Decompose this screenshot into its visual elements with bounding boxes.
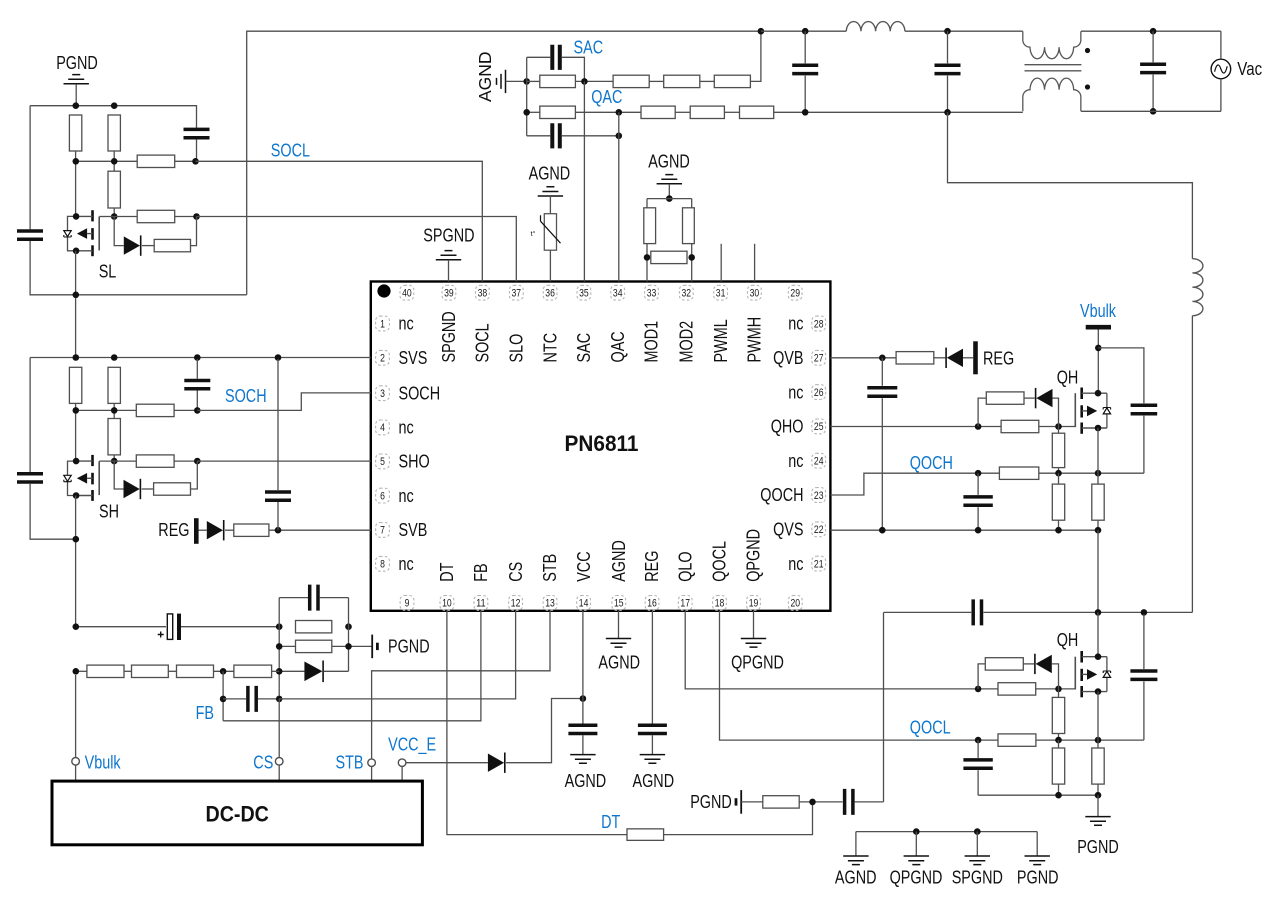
resistor R34 (QH gate) xyxy=(1001,420,1039,432)
wire C15 bottom stem xyxy=(947,76,949,113)
node junction CS column / CS line xyxy=(276,696,283,703)
wire VCC_E terminal to DC-DC xyxy=(401,767,403,782)
svg-text:39: 39 xyxy=(444,288,454,300)
svg-text:36: 36 xyxy=(545,288,555,300)
wire gate node to R36 xyxy=(1058,427,1060,434)
svg-text:QHO: QHO xyxy=(771,417,804,437)
svg-text:nc: nc xyxy=(399,554,414,574)
node junction AC line / SAC chain xyxy=(758,28,765,35)
resistor R39 (QVS sense upper) xyxy=(1092,484,1104,520)
ground AGND (VCC cap) xyxy=(570,755,595,764)
svg-text:11: 11 xyxy=(476,598,486,610)
capacitor C21 (boot lower) xyxy=(1130,671,1157,679)
ground PGND (lower right) xyxy=(1085,817,1110,826)
wire SVS rail to pin 2 xyxy=(30,357,371,359)
node junction row / QPGND xyxy=(913,828,920,835)
svg-text:PGND: PGND xyxy=(56,53,98,73)
svg-text:Vbulk: Vbulk xyxy=(1080,301,1117,321)
node junction QOCL / R42-R44 xyxy=(1055,737,1062,744)
svg-text:VCC: VCC xyxy=(574,551,594,581)
resistor R21 (QPGND filter) xyxy=(763,796,799,808)
wire bank left column xyxy=(278,598,280,699)
wire QPGND column xyxy=(883,612,885,802)
svg-text:SOCL: SOCL xyxy=(473,323,493,362)
pin number 29 xyxy=(788,285,802,300)
node junction QOCL / QH source lower xyxy=(1095,737,1102,744)
polarity dot T1 bottom xyxy=(1085,84,1090,89)
svg-text:DC-DC: DC-DC xyxy=(206,802,269,827)
wire R28-R29 xyxy=(724,111,739,113)
pin number 40 xyxy=(400,285,414,300)
pin number 12 xyxy=(509,596,523,611)
wire SL return loop to AC top line xyxy=(247,31,761,295)
wire QOCL net from pin 18 xyxy=(720,611,999,741)
pin number 10 xyxy=(440,596,454,611)
wire C10 to AGND xyxy=(651,735,653,754)
node junction top line / C16 xyxy=(1150,28,1157,35)
svg-text:FB: FB xyxy=(471,563,491,581)
node SOCH xyxy=(194,407,201,414)
svg-text:SPGND: SPGND xyxy=(439,311,459,362)
capacitor C5 (SVB boot) xyxy=(265,492,291,500)
diode D8 (gate off lower) xyxy=(1036,655,1052,673)
pin number 18 xyxy=(713,596,727,611)
wire ground tie row xyxy=(856,831,1037,833)
wire VCC node to pin 14 xyxy=(582,611,584,699)
wire C5 top stem from SVS rail xyxy=(277,359,279,490)
wire rail to R30 xyxy=(646,199,648,208)
transistor SL (MOSFET) xyxy=(64,210,99,256)
wire gate node to R42 xyxy=(1058,689,1060,698)
node junction QAC / pin riser xyxy=(616,109,623,116)
ground QPGND (pin 19) xyxy=(741,639,766,648)
diode D7 (gate off upper) xyxy=(1036,389,1052,407)
wire R26 to R27 xyxy=(575,111,641,113)
node junction bottom line / C14 xyxy=(802,109,809,116)
svg-text:25: 25 xyxy=(814,421,824,433)
ground PGND symbol (top left) xyxy=(64,75,89,84)
wire SL gate to D1 anode xyxy=(114,217,124,246)
node junction SVS / R8 xyxy=(111,354,118,361)
diode D3 (REG to SVB) xyxy=(207,521,223,539)
node junction SOCH row / R9 xyxy=(111,407,118,414)
node junction QHO / diode branch xyxy=(975,423,982,430)
svg-text:nc: nc xyxy=(399,418,414,438)
svg-text:26: 26 xyxy=(814,387,824,399)
wire MOD top rail xyxy=(647,198,692,200)
pin number 2 xyxy=(376,350,390,365)
capacitor C4 (SH snubber) xyxy=(17,474,43,482)
svg-text:QPGND: QPGND xyxy=(731,653,784,673)
node junction bottom line / C16 xyxy=(1150,108,1157,115)
svg-text:PWML: PWML xyxy=(711,319,731,362)
wire R23-R24 xyxy=(649,80,664,82)
resistor R15 (comp) xyxy=(296,640,332,652)
pin number 39 xyxy=(442,285,456,300)
pin number 8 xyxy=(376,556,390,571)
wire AGND stem (row) xyxy=(855,832,857,856)
svg-text:AGND: AGND xyxy=(648,152,690,172)
capacitor C1 (SL snubber) xyxy=(17,231,43,239)
wire SL left column lower / bottom rail xyxy=(30,241,247,295)
svg-text:QPGND: QPGND xyxy=(890,868,943,888)
wire AGND to SAC node xyxy=(506,80,527,82)
wire gate node to R5 xyxy=(114,216,137,218)
wire R5 to SLO node xyxy=(175,216,197,218)
wire Vbulk to QH drain xyxy=(1097,330,1099,394)
resistor R29 (QAC chain) xyxy=(740,106,774,118)
terminal STB xyxy=(368,759,376,767)
wire QAC node to R26 xyxy=(527,111,540,113)
node junction PGND line / R44 xyxy=(1055,792,1062,799)
pin number 35 xyxy=(577,285,591,300)
wire VCC_E to D5 xyxy=(406,762,488,764)
node junction QAC left xyxy=(523,109,530,116)
wire mid line right of C20 xyxy=(984,611,1193,613)
wire SOCH row left xyxy=(76,409,137,411)
wire R33 to D6 cathode xyxy=(934,357,946,359)
wire AC top line a xyxy=(761,30,846,32)
pin number 21 xyxy=(812,556,826,571)
block DC-DC converter xyxy=(52,781,422,845)
wire SOCH net to pin 3 xyxy=(197,393,370,411)
resistor R45 (PGND sense lower) xyxy=(1092,748,1104,784)
resistor R35 (gate off upper) xyxy=(986,392,1024,404)
capacitor C2 (SOCL filter) xyxy=(184,129,210,137)
wire R42 to QOCL line xyxy=(1058,734,1060,741)
wire chain R16-R17 xyxy=(124,670,132,672)
svg-text:29: 29 xyxy=(790,288,800,300)
pin number 4 xyxy=(376,420,390,435)
wire QAC cap branch left xyxy=(527,135,551,137)
svg-text:8: 8 xyxy=(380,559,385,571)
capacitor C17 (QVB) xyxy=(867,388,897,396)
wire L2 down to bridge mid line xyxy=(1191,316,1193,613)
wire QHO net from pin 25 xyxy=(830,426,1001,428)
svg-text:14: 14 xyxy=(579,598,589,610)
wire SL left column upper xyxy=(29,106,31,230)
wire R40 to lower QH gate xyxy=(1036,688,1076,690)
wire R3 to SOCL node xyxy=(175,160,196,162)
ground AGND (pin 15) xyxy=(606,639,631,648)
wire QVS feed riser xyxy=(948,112,1193,258)
svg-text:PGND: PGND xyxy=(388,637,430,657)
capacitor C8 (FB) xyxy=(248,686,256,712)
resistor R18 (chain) xyxy=(177,665,214,677)
node junction QOCH / R36-R38 xyxy=(1055,470,1062,477)
wire R24-R25 xyxy=(700,80,715,82)
wire bank top branch left xyxy=(279,597,308,599)
svg-text:15: 15 xyxy=(614,598,624,610)
ground AGND (NTC) xyxy=(538,187,563,196)
svg-text:20: 20 xyxy=(791,598,801,610)
node junction FB tap / C8 xyxy=(220,696,227,703)
power symbol REG rail (left) xyxy=(194,518,199,544)
resistor R6 (SL gate discharge) xyxy=(154,239,190,251)
wire SH gate lead / to R11 xyxy=(99,460,136,462)
wire MOD2 to pin 32 xyxy=(691,244,693,282)
svg-text:SPGND: SPGND xyxy=(952,868,1003,888)
svg-text:QOCH: QOCH xyxy=(910,453,953,473)
svg-text:CS: CS xyxy=(506,562,526,582)
wire SL top rail xyxy=(30,106,196,129)
resistor R32 (MOD bridge) xyxy=(651,251,687,263)
capacitor C16 (across AC) xyxy=(1140,64,1166,72)
svg-text:REG: REG xyxy=(983,349,1014,369)
wire QOCH to C18 corner xyxy=(1039,472,1144,474)
node junction bank left / R15 xyxy=(276,643,283,650)
svg-text:23: 23 xyxy=(814,490,824,502)
svg-text:VCC_E: VCC_E xyxy=(388,735,436,756)
wire bank top branch right xyxy=(320,597,349,599)
wire QH source column xyxy=(1097,428,1099,484)
pin number 34 xyxy=(611,285,625,300)
transistor QH lower (MOSFET) xyxy=(1075,651,1110,697)
wire C5 bottom stem to SVB xyxy=(277,502,279,530)
node junction QAC cap / riser xyxy=(616,133,623,140)
wire QOCH net from pin 23 xyxy=(830,473,999,495)
svg-text:QOCL: QOCL xyxy=(710,541,730,582)
node junction MOD2 / R32 xyxy=(688,254,695,261)
wire SAC cap branch right xyxy=(562,57,585,81)
wire MOD1 to pin 33 xyxy=(646,244,648,282)
wire R10 to SOCH node xyxy=(174,409,197,411)
resistor R17 (chain) xyxy=(132,665,169,677)
wire QAC chain to AC bottom line xyxy=(774,111,1023,113)
wire PGND stem (lower right) xyxy=(1097,795,1099,816)
pin number 16 xyxy=(645,596,659,611)
svg-text:MOD1: MOD1 xyxy=(642,321,662,363)
wire R15 to PGND cell xyxy=(332,645,372,647)
svg-text:34: 34 xyxy=(613,288,623,300)
ground SPGND (row) xyxy=(965,856,990,865)
pin number 19 xyxy=(747,596,761,611)
resistor R4 (SL gate divider) xyxy=(108,171,120,208)
node junction SAC / pin riser xyxy=(581,78,588,85)
node junction QVS / C17 xyxy=(879,527,886,534)
wire STB terminal to DC-DC xyxy=(371,767,373,782)
wire Vac bottom lead xyxy=(1220,79,1222,112)
node junction row / SPGND xyxy=(974,828,981,835)
pin number 36 xyxy=(543,285,557,300)
wire R6 up to SLO node xyxy=(191,217,197,246)
node junction SAC left column xyxy=(523,78,530,85)
wire chain R17-R18 xyxy=(168,670,176,672)
svg-text:nc: nc xyxy=(788,382,803,402)
diode D2 (SH gate discharge) xyxy=(124,480,140,498)
ground AGND (REG cap) xyxy=(640,755,665,764)
wire C21 top stem xyxy=(1143,614,1145,669)
node junction QLO / diode branch xyxy=(975,686,982,693)
node junction QVS / R38 xyxy=(1055,527,1062,534)
svg-text:QH: QH xyxy=(1057,630,1079,650)
pin number 31 xyxy=(714,285,728,300)
wire PGND stem xyxy=(75,84,77,106)
wire PGND line (lower right) xyxy=(978,794,1098,796)
wire chain R18-R19 xyxy=(214,670,234,672)
svg-text:22: 22 xyxy=(814,524,824,536)
pin number 1 xyxy=(376,316,390,331)
node junction bottom line / QVS riser xyxy=(944,109,951,116)
resistor R7 (SH divider upper) xyxy=(69,367,81,403)
ground PGND (row) xyxy=(1025,856,1050,865)
thermistor NTC xyxy=(544,214,556,251)
node junction DT / PGND filter xyxy=(809,799,816,806)
svg-text:SHO: SHO xyxy=(399,452,430,472)
svg-text:PN6811: PN6811 xyxy=(565,431,639,456)
resistor R14 (comp) xyxy=(296,621,332,633)
resistor R11 (SH gate series) xyxy=(136,455,174,467)
node junction top line / C14 xyxy=(802,28,809,35)
svg-text:PGND: PGND xyxy=(1017,868,1059,888)
resistor R1 (SL divider upper) xyxy=(69,115,81,151)
resistor R28 (QAC chain) xyxy=(690,106,724,118)
svg-text:28: 28 xyxy=(814,318,824,330)
node junction SVB / C5 xyxy=(275,527,282,534)
op-amp U1 PN6811 IC body xyxy=(371,282,831,611)
svg-text:AGND: AGND xyxy=(598,653,640,673)
ground AGND (MOD) xyxy=(657,175,682,184)
node junction SVS / main rail xyxy=(73,354,80,361)
svg-text:QLO: QLO xyxy=(675,551,695,581)
node junction chain / FB tap xyxy=(220,668,227,675)
wire D1 to R6 xyxy=(142,245,154,247)
wire SH gate to D2 anode xyxy=(114,461,123,489)
svg-text:nc: nc xyxy=(788,314,803,334)
capacitor C19 (QOCH) xyxy=(963,497,992,505)
wire R22 to R23 xyxy=(575,80,613,82)
node SL gate xyxy=(111,213,118,220)
svg-text:FB: FB xyxy=(196,703,214,723)
resistor R27 (QAC chain) xyxy=(641,106,675,118)
wire STB net to pin 13 xyxy=(372,611,550,759)
wire R7 bottom to SH drain xyxy=(75,403,77,461)
node junction SVS / C3 xyxy=(194,354,201,361)
svg-text:MOD2: MOD2 xyxy=(677,321,697,363)
resistor R13 (SVB series) xyxy=(234,524,269,536)
node junction MOD1 / R32 xyxy=(644,254,651,261)
wire C19 bottom to QVS xyxy=(977,507,979,530)
pin number 27 xyxy=(812,350,826,365)
svg-text:SL: SL xyxy=(99,262,117,282)
ground AGND (SAC, rotated) xyxy=(497,70,506,93)
resistor R25 (SAC chain) xyxy=(714,75,750,87)
node junction mid line / C21 xyxy=(1141,609,1148,616)
wire R35 to D7 cathode xyxy=(1024,397,1035,399)
wire C21 bottom to QOCL line xyxy=(1143,681,1145,740)
svg-text:24: 24 xyxy=(814,456,824,468)
svg-text:37: 37 xyxy=(512,288,522,300)
node junction QOCH / QH source xyxy=(1095,470,1102,477)
wire pin16 REG to C10 xyxy=(651,611,653,724)
wire Vbulk terminal to DC-DC xyxy=(75,765,77,781)
wire C14 top stem xyxy=(804,31,806,63)
capacitor C13 (QAC) xyxy=(552,123,560,148)
svg-text:SH: SH xyxy=(99,502,119,522)
resistor R33 (QVB series) xyxy=(896,352,934,364)
svg-text:PGND: PGND xyxy=(690,792,732,812)
svg-text:nc: nc xyxy=(399,486,414,506)
svg-text:PWMH: PWMH xyxy=(745,317,765,363)
node junction QOCL / C22 xyxy=(975,737,982,744)
svg-text:7: 7 xyxy=(380,525,385,537)
pin number 6 xyxy=(376,488,390,503)
wire Vac top lead xyxy=(1220,31,1222,59)
wire CS terminal to DC-DC xyxy=(278,765,280,781)
wire DT net from pin 10 xyxy=(447,611,627,835)
wire diode branch riser (lower) xyxy=(978,664,985,689)
wire SPGND stem to pin 39 xyxy=(448,260,450,282)
node junction bank right / R15 xyxy=(345,643,352,650)
wire AGND to NTC xyxy=(549,196,551,214)
diode D1 (SL gate discharge) xyxy=(124,236,140,254)
wire R39 to QVS xyxy=(1097,520,1099,530)
wire AC bottom line c xyxy=(1081,110,1221,112)
node VCC xyxy=(580,695,587,702)
svg-text:SAC: SAC xyxy=(574,38,604,58)
wire C18 bottom to QOCH line xyxy=(1143,416,1145,474)
pin number 20 xyxy=(788,596,802,611)
wire SHO net to pin 5 xyxy=(197,460,370,462)
pin number 23 xyxy=(812,488,826,503)
diode D4 (comp) xyxy=(304,662,322,682)
svg-text:33: 33 xyxy=(647,288,657,300)
wire pin30 PWMH stub xyxy=(754,244,756,282)
wire SL gate lead xyxy=(99,216,114,218)
svg-text:QOCL: QOCL xyxy=(910,717,951,737)
node junction SVS / C5 column xyxy=(275,354,282,361)
node junction SOCH row / rail xyxy=(73,407,80,414)
svg-text:nc: nc xyxy=(788,451,803,471)
transformer T1 common-mode choke xyxy=(1023,31,1082,111)
wire R8 bottom to R9 top xyxy=(113,403,115,418)
node junction SL rail / PGND xyxy=(73,102,80,109)
svg-text:SOCL: SOCL xyxy=(271,141,310,161)
resistor R38 (QOCH divider) xyxy=(1052,484,1064,520)
svg-text:21: 21 xyxy=(814,558,824,570)
wire C3 bottom stem xyxy=(196,391,198,411)
wire SOCL row left xyxy=(76,160,138,162)
wire QOCH to R38 xyxy=(1058,473,1060,484)
svg-text:3: 3 xyxy=(380,388,385,400)
wire R9 bottom to gate node xyxy=(113,455,115,461)
wire C15 top stem xyxy=(947,31,949,63)
node SHO xyxy=(194,458,201,465)
node junction QOCH / C19 xyxy=(975,470,982,477)
svg-text:40: 40 xyxy=(402,288,412,300)
wire C14 bottom stem xyxy=(804,76,806,113)
wire AC top line b xyxy=(905,30,1023,32)
wire QLO net from pin 17 xyxy=(685,611,998,689)
svg-text:QOCH: QOCH xyxy=(760,485,803,505)
svg-text:17: 17 xyxy=(680,598,690,610)
resistor R22 (SAC) xyxy=(540,75,576,87)
wire C22 bottom to PGND line xyxy=(977,770,979,795)
node junction rail / C6 line xyxy=(73,623,80,630)
wire SOCL net to pin 38 xyxy=(196,161,483,281)
wire D7 anode down to gate node xyxy=(1053,398,1059,426)
resistor R16 (Vbulk sense chain) xyxy=(87,665,124,677)
wire SPGND stem (row) xyxy=(976,832,978,856)
wire R41 to D8 cathode xyxy=(1023,663,1034,665)
wire SAC pin riser to pin 35 xyxy=(583,81,585,281)
node junction QVS / C19 xyxy=(975,527,982,534)
wire switch node down to mid line xyxy=(1097,530,1099,612)
node junction QVS / R39 / switch node xyxy=(1095,527,1102,534)
wire QPGND stem (row) xyxy=(915,832,917,856)
wire pin19 QPGND stem xyxy=(753,611,755,639)
svg-text:QAC: QAC xyxy=(591,87,622,107)
